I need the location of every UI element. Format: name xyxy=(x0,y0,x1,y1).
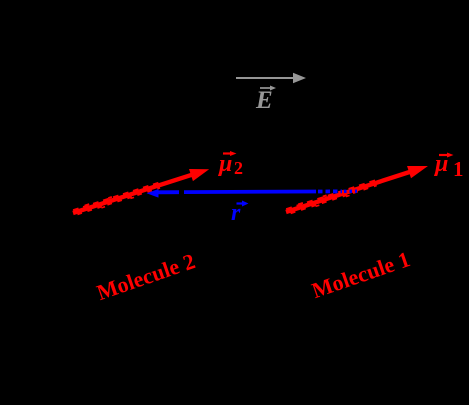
svg-text:2: 2 xyxy=(234,158,243,178)
svg-text:1: 1 xyxy=(453,157,464,181)
svg-text:E: E xyxy=(255,87,273,114)
